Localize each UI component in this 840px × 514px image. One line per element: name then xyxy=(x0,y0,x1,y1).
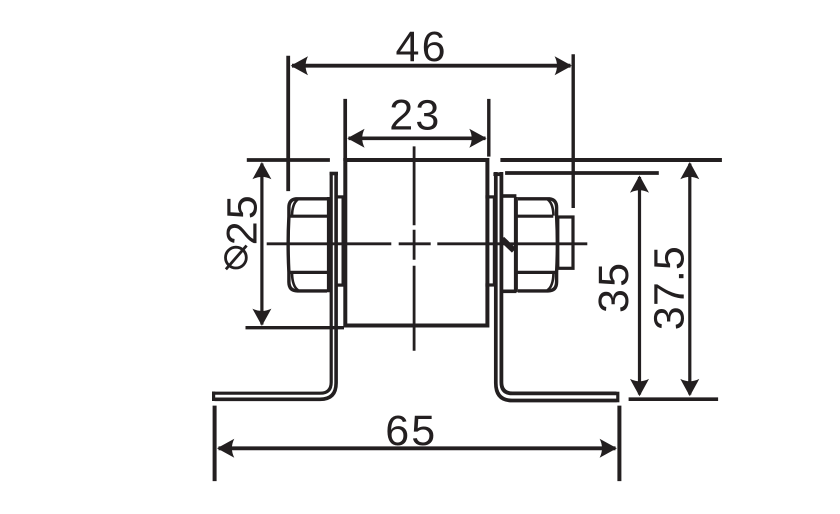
dim 65 right arrow xyxy=(600,439,617,458)
left washer side line xyxy=(342,198,344,284)
axle end block xyxy=(558,217,573,268)
left washer bottom edge xyxy=(335,284,347,287)
dim 37.5 top arrow xyxy=(680,162,699,179)
right nut outline xyxy=(518,199,557,291)
dim 65 left extension line xyxy=(213,406,217,482)
dim 37.5 line xyxy=(688,164,691,395)
dim 35 top arrow xyxy=(630,175,649,192)
dim phi25 line xyxy=(260,164,263,325)
dim 46 right arrow xyxy=(555,56,572,75)
right bracket outer line xyxy=(496,172,617,401)
dim 46 right extension line xyxy=(572,54,575,208)
left nut lower facet line xyxy=(290,271,327,274)
left bracket outer line xyxy=(215,172,332,393)
roller vertical centerline xyxy=(413,146,416,350)
dim 65 right extension line xyxy=(617,406,621,482)
right spacer bottom edge xyxy=(501,289,517,293)
dim phi25 bottom extension line xyxy=(246,326,345,329)
left nut top chamfer arc xyxy=(292,199,298,215)
right spacer top edge xyxy=(501,194,517,198)
dim 23 line xyxy=(349,137,486,141)
right washer A bottom edge xyxy=(485,283,496,286)
roller body xyxy=(345,160,487,326)
dim 37.5 bottom arrow xyxy=(680,379,699,396)
right washer A side line xyxy=(493,198,496,284)
dim 35 bottom arrow xyxy=(630,379,649,396)
axle chamfer wedge xyxy=(502,239,514,251)
dim phi25 phi slash xyxy=(226,246,247,270)
dim phi25 phi circle xyxy=(226,247,247,268)
right rail lower line xyxy=(505,171,659,175)
right nut lower facet line xyxy=(517,271,557,274)
right nut top chamfer arc xyxy=(548,199,554,215)
left nut outline xyxy=(288,199,327,291)
dim 23 left extension line xyxy=(343,99,347,161)
right washer A top edge xyxy=(485,195,496,198)
dim 46 line xyxy=(292,64,571,68)
dim 46 left extension line xyxy=(286,56,290,191)
dim 35/37.5 bottom extension line xyxy=(629,397,719,401)
dim 23 right arrow xyxy=(469,129,486,148)
roller axis centerline xyxy=(267,242,588,245)
dim 46 left arrow xyxy=(291,56,308,75)
right bracket inner line xyxy=(501,172,616,393)
dim 65 left arrow xyxy=(217,439,234,458)
left rail line xyxy=(247,158,330,162)
left washer top edge xyxy=(335,195,347,198)
svg-text:37.5: 37.5 xyxy=(646,246,694,330)
right bracket plate top cap xyxy=(493,172,502,176)
dim phi25 bottom arrow xyxy=(252,309,271,326)
right bracket foot end cap xyxy=(616,392,619,403)
dim 23 left arrow xyxy=(347,129,364,148)
right nut upper facet line xyxy=(517,215,554,218)
right nut bottom chamfer arc xyxy=(547,273,553,290)
right rail top line xyxy=(500,158,722,162)
left bracket inner line xyxy=(215,172,337,399)
left bracket foot end cap xyxy=(212,392,215,402)
left bracket plate top cap xyxy=(330,172,338,176)
left nut upper facet line xyxy=(291,215,328,218)
dim 65 line xyxy=(219,446,616,450)
left nut bottom chamfer arc xyxy=(292,273,298,290)
left nut face line xyxy=(327,197,332,292)
right nut face line xyxy=(514,197,518,292)
dim 35 line xyxy=(638,177,641,395)
dim 23 right extension line xyxy=(487,99,490,157)
dim phi25 top arrow xyxy=(252,162,271,179)
